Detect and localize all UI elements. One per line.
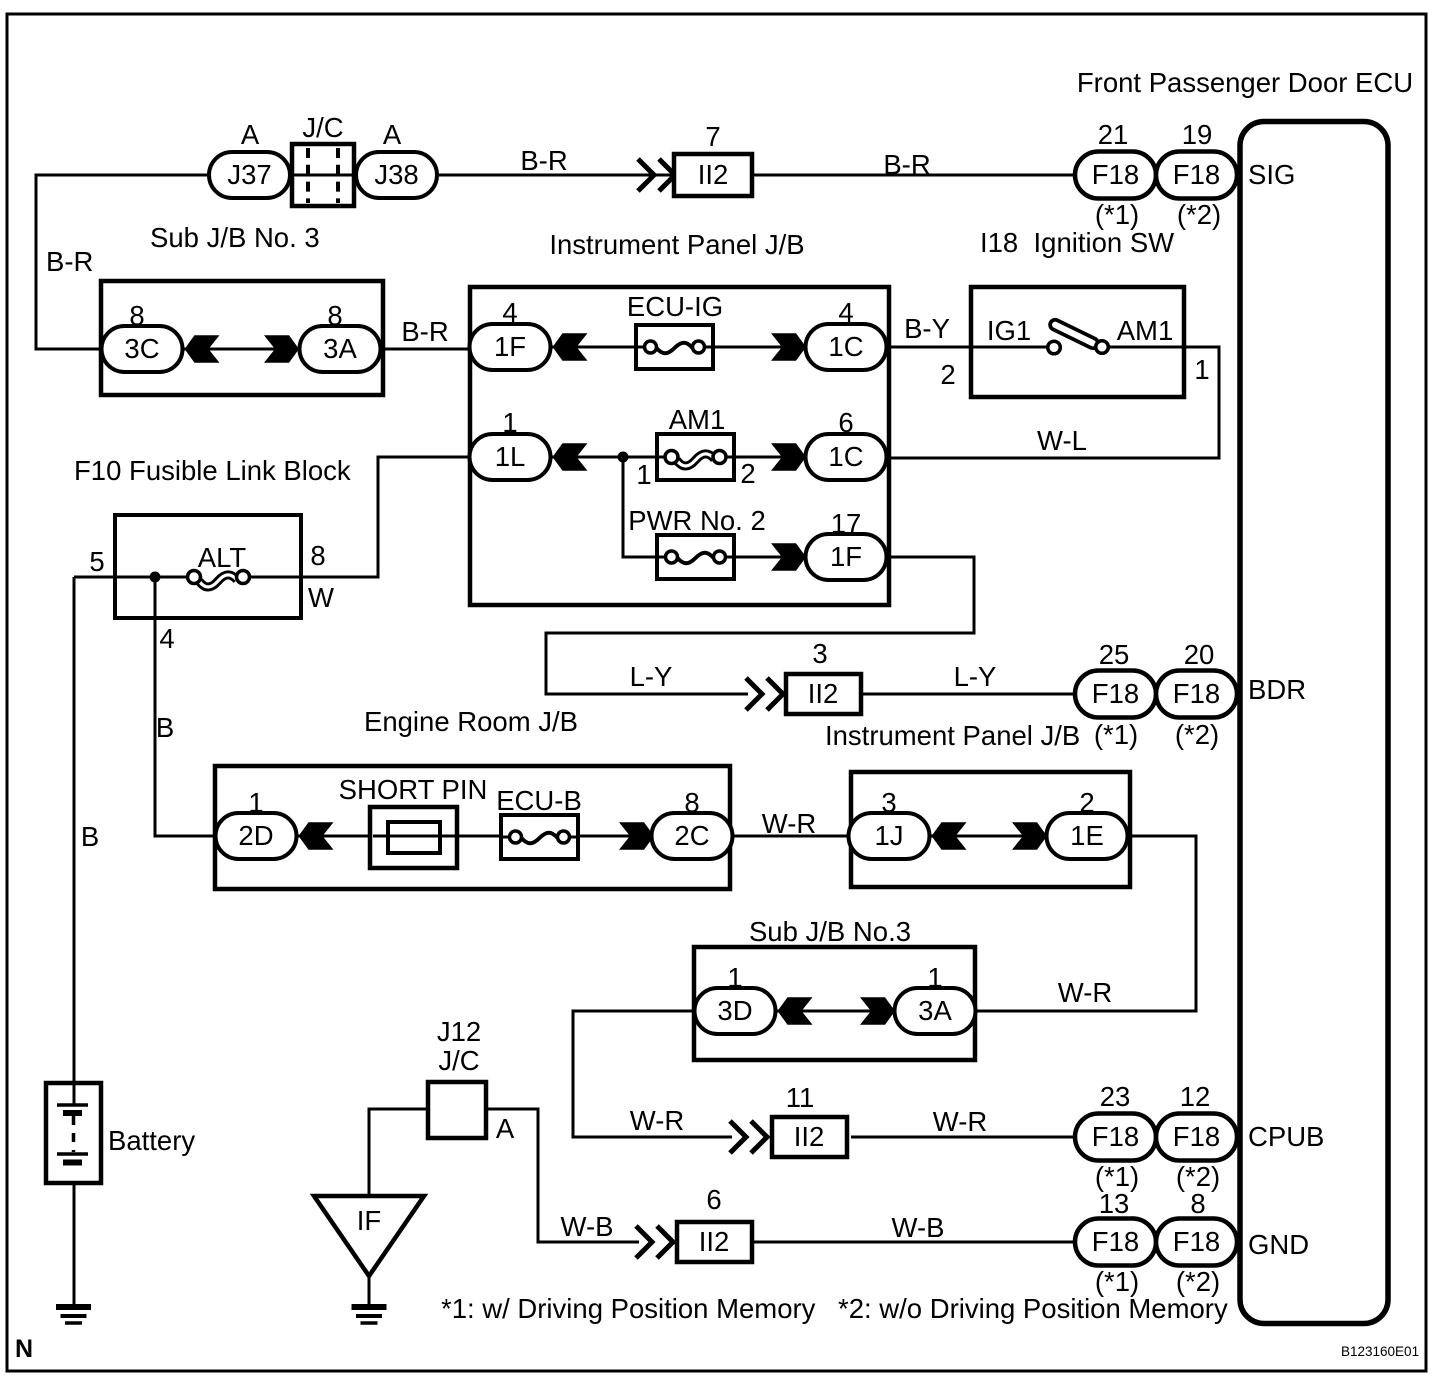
- fusible link ALT: [188, 542, 250, 587]
- svg-text:W-R: W-R: [1058, 977, 1112, 1008]
- wire 1E down to 3A (W-R): [975, 836, 1196, 1011]
- svg-text:3A: 3A: [323, 333, 357, 364]
- svg-text:A: A: [383, 119, 402, 150]
- svg-text:8: 8: [327, 300, 342, 331]
- junction node: [618, 452, 629, 463]
- svg-text:1: 1: [1194, 354, 1209, 385]
- wire 1F pin17 to II2 pin3 (L-Y): [546, 557, 974, 694]
- svg-text:A: A: [496, 1113, 515, 1144]
- svg-text:B-R: B-R: [401, 316, 448, 347]
- svg-text:J/C: J/C: [302, 112, 343, 143]
- svg-text:W-R: W-R: [630, 1105, 684, 1136]
- svg-text:ALT: ALT: [198, 542, 247, 573]
- svg-text:L-Y: L-Y: [630, 661, 673, 692]
- connector J37: [209, 119, 290, 198]
- wire J12 pin A to II2 pin6 (W-B): [487, 1109, 639, 1242]
- svg-text:J/C: J/C: [438, 1045, 479, 1076]
- ignition switch contacts IG1/AM1: [987, 315, 1173, 354]
- svg-text:1: 1: [727, 962, 742, 993]
- svg-text:5: 5: [89, 546, 104, 577]
- svg-text:3A: 3A: [918, 995, 952, 1026]
- svg-text:F18: F18: [1173, 678, 1220, 709]
- svg-text:IG1: IG1: [987, 315, 1031, 346]
- svg-text:*1: w/ Driving Position Memory: *1: w/ Driving Position Memory: [441, 1293, 816, 1324]
- svg-text:1C: 1C: [828, 441, 863, 472]
- svg-text:J38: J38: [374, 159, 418, 190]
- junction node at ALT: [150, 572, 161, 583]
- wire battery to ground: [73, 1164, 76, 1306]
- svg-text:1F: 1F: [494, 331, 526, 362]
- junction connector J/C (top): [292, 112, 354, 206]
- junction block Instrument Panel J/B: [470, 229, 889, 605]
- svg-text:1J: 1J: [874, 820, 903, 851]
- connector F18 pin 8 (*2): [1156, 1188, 1237, 1297]
- arrow into 3C: [185, 335, 220, 362]
- junction connector J12 J/C: [428, 1016, 486, 1138]
- svg-text:Engine Room J/B: Engine Room J/B: [364, 706, 578, 737]
- svg-text:F18: F18: [1173, 1226, 1220, 1257]
- wire 1L to 1C through AM1 fuse: [550, 456, 808, 459]
- connector J38: [356, 119, 437, 198]
- wire ALT row from left vertical to box: [74, 576, 190, 579]
- svg-text:F10 Fusible Link Block: F10 Fusible Link Block: [74, 455, 351, 486]
- connector 1C pin 6: [806, 407, 887, 480]
- svg-text:CPUB: CPUB: [1248, 1121, 1324, 1152]
- wire battery B vertical: [73, 577, 76, 1104]
- svg-text:1: 1: [636, 459, 651, 490]
- fuse PWR No. 2: [628, 505, 766, 579]
- svg-text:1F: 1F: [830, 541, 862, 572]
- svg-text:B: B: [81, 821, 99, 852]
- svg-text:SHORT PIN: SHORT PIN: [339, 774, 488, 805]
- battery: [46, 1083, 195, 1183]
- svg-text:B123160E01: B123160E01: [1341, 1344, 1419, 1359]
- connector F18 pin 13 (*1): [1075, 1188, 1156, 1297]
- connector II2 pin 6: [677, 1184, 752, 1262]
- svg-text:W-R: W-R: [933, 1106, 987, 1137]
- svg-text:B-Y: B-Y: [904, 313, 950, 344]
- svg-text:1C: 1C: [828, 331, 863, 362]
- double chevron into II2 pin11: [730, 1121, 767, 1153]
- svg-text:6: 6: [706, 1184, 721, 1215]
- wire 3A to 1F (B-R): [381, 348, 472, 351]
- arrow into 1L: [553, 443, 588, 470]
- svg-text:IF: IF: [357, 1205, 381, 1236]
- connector F18 pin 19 (*2): [1156, 119, 1237, 230]
- svg-text:12: 12: [1180, 1081, 1211, 1112]
- svg-text:Instrument Panel J/B: Instrument Panel J/B: [549, 229, 804, 260]
- svg-text:AM1: AM1: [1117, 315, 1174, 346]
- svg-text:B-R: B-R: [46, 246, 93, 277]
- svg-text:W-L: W-L: [1037, 425, 1087, 456]
- svg-text:Instrument Panel J/B: Instrument Panel J/B: [825, 720, 1080, 751]
- svg-text:AM1: AM1: [669, 404, 726, 435]
- wire 3D to II2 pin11 (W-R): [573, 1011, 732, 1137]
- junction block Sub J/B No.3 (bottom): [694, 916, 975, 1060]
- junction block Instrument Panel J/B (1J/1E): [851, 772, 1130, 887]
- wire II2 pin11 to F18 pin23 (W-R): [851, 1136, 1077, 1139]
- arrow into 2D: [299, 822, 334, 849]
- svg-text:*2: w/o Driving Position Memor: *2: w/o Driving Position Memory: [838, 1293, 1228, 1324]
- svg-text:23: 23: [1100, 1081, 1131, 1112]
- connector 1J pin 3: [849, 787, 930, 859]
- svg-text:1: 1: [502, 407, 517, 438]
- svg-text:1L: 1L: [495, 441, 526, 472]
- arrow into 1C pin4: [771, 333, 806, 360]
- svg-text:B-R: B-R: [883, 149, 930, 180]
- svg-text:19: 19: [1182, 119, 1213, 150]
- wire 2C to 1J (W-R): [732, 835, 851, 838]
- arrow into 3A: [264, 335, 299, 362]
- connector 1C pin 4: [806, 297, 887, 370]
- connector II2 pin 7: [674, 121, 752, 196]
- wire ignition AM1 pin1 down to 1C pin6 (W-L): [886, 347, 1219, 458]
- wire 3C to 3A: [182, 348, 301, 351]
- wire J12 to IF filter: [369, 1109, 428, 1196]
- svg-text:4: 4: [838, 297, 853, 328]
- svg-text:(*2): (*2): [1177, 199, 1221, 230]
- wire II2 pin7 to F18 pin21: [753, 174, 1077, 177]
- svg-text:BDR: BDR: [1248, 674, 1306, 705]
- arrow into 1J: [932, 822, 967, 849]
- wire 3D to 3A: [775, 1010, 895, 1013]
- connector 1F pin 4: [470, 297, 551, 370]
- svg-text:Front Passenger Door ECU: Front Passenger Door ECU: [1077, 67, 1413, 98]
- svg-text:F18: F18: [1092, 1226, 1139, 1257]
- wire 2D to 2C through SHORT PIN and ECU-B: [296, 835, 654, 838]
- svg-text:8: 8: [129, 300, 144, 331]
- block F10 Fusible Link Block: [74, 455, 351, 618]
- svg-text:7: 7: [705, 121, 720, 152]
- connector 1E pin 2: [1047, 787, 1128, 859]
- arrow into 1F: [553, 333, 588, 360]
- connector II2 pin 3: [786, 638, 861, 714]
- wire II2 pin3 to F18 pin25: [862, 693, 1077, 696]
- svg-text:1: 1: [248, 787, 263, 818]
- svg-text:21: 21: [1098, 119, 1129, 150]
- svg-text:6: 6: [838, 407, 853, 438]
- svg-text:B: B: [156, 712, 174, 743]
- svg-text:20: 20: [1184, 639, 1215, 670]
- fuse ECU-B: [496, 785, 582, 859]
- svg-text:SIG: SIG: [1248, 159, 1295, 190]
- svg-text:ECU-IG: ECU-IG: [627, 291, 723, 322]
- fuse AM1 (fusible link): [657, 404, 734, 480]
- svg-text:W: W: [308, 582, 334, 613]
- svg-text:ECU-B: ECU-B: [496, 785, 582, 816]
- connector II2 pin 11: [772, 1082, 847, 1157]
- svg-text:Sub J/B No.3: Sub J/B No.3: [749, 916, 911, 947]
- junction block Sub J/B No. 3 (top): [101, 222, 383, 395]
- connector 3A pin 8: [300, 300, 381, 372]
- svg-text:3C: 3C: [124, 333, 159, 364]
- svg-text:A: A: [241, 119, 260, 150]
- svg-text:(*1): (*1): [1095, 199, 1139, 230]
- svg-text:W-B: W-B: [892, 1212, 945, 1243]
- svg-text:PWR No. 2: PWR No. 2: [628, 505, 766, 536]
- fuse ECU-IG: [627, 291, 723, 369]
- connector 3C pin 8: [102, 300, 183, 372]
- connector 3A pin 1 (bottom): [895, 962, 976, 1034]
- svg-text:2: 2: [740, 458, 755, 489]
- wire 1J to 1E: [929, 835, 1049, 838]
- svg-text:2C: 2C: [674, 820, 709, 851]
- svg-text:4: 4: [159, 623, 174, 654]
- svg-text:(*2): (*2): [1175, 719, 1219, 750]
- svg-text:8: 8: [684, 787, 699, 818]
- svg-text:W-B: W-B: [561, 1211, 614, 1242]
- ECU block U1 Front Passenger Door ECU: [1077, 67, 1413, 1324]
- arrow into 3D: [778, 997, 813, 1024]
- connector F18 pin 25 (*1): [1075, 639, 1156, 750]
- svg-text:11: 11: [786, 1082, 815, 1113]
- arrow into 1F pin17: [771, 543, 806, 570]
- svg-text:J37: J37: [227, 159, 271, 190]
- wire 1C to ignition switch IG1 (B-Y): [886, 346, 1050, 349]
- svg-text:3: 3: [881, 787, 896, 818]
- switch I18 Ignition SW box: [971, 227, 1184, 397]
- svg-text:L-Y: L-Y: [954, 661, 997, 692]
- double chevron into II2 pin6: [636, 1226, 673, 1258]
- arrow into 1E: [1012, 822, 1047, 849]
- svg-text:25: 25: [1099, 639, 1130, 670]
- noise filter IF: [314, 1196, 424, 1276]
- svg-text:Sub J/B No. 3: Sub J/B No. 3: [150, 222, 320, 253]
- connector 1L pin 1: [470, 407, 551, 480]
- svg-text:II2: II2: [699, 1226, 730, 1257]
- wire IF to ground: [368, 1276, 371, 1306]
- svg-text:1: 1: [927, 962, 942, 993]
- svg-text:2: 2: [940, 359, 955, 390]
- svg-text:1E: 1E: [1070, 820, 1104, 851]
- svg-text:F18: F18: [1173, 1121, 1220, 1152]
- svg-text:J12: J12: [437, 1016, 481, 1047]
- arrow into 1C pin6: [771, 443, 806, 470]
- svg-text:4: 4: [502, 297, 517, 328]
- svg-text:3: 3: [812, 638, 827, 669]
- svg-text:8: 8: [1190, 1188, 1205, 1219]
- wire II2 pin6 to F18 pin13 (W-B): [754, 1241, 1077, 1244]
- arrow into 3A (bottom): [860, 997, 895, 1024]
- svg-text:N: N: [15, 1335, 33, 1363]
- svg-text:I18 Ignition SW: I18 Ignition SW: [980, 227, 1174, 258]
- junction block Engine Room J/B: [215, 706, 730, 889]
- svg-text:GND: GND: [1248, 1229, 1309, 1260]
- wire B-R from J37 left down to 3C: [36, 175, 209, 349]
- connector 2C pin 8: [652, 787, 733, 859]
- connector 1F pin 17: [806, 508, 887, 580]
- wire ALT pin8 up to 1L (W): [248, 457, 472, 577]
- connector F18 pin 23 (*1): [1075, 1081, 1156, 1192]
- svg-text:3D: 3D: [717, 995, 752, 1026]
- ground (battery): [56, 1307, 91, 1323]
- SHORT PIN component: [339, 774, 488, 868]
- double chevron into II2 pin3: [746, 678, 783, 710]
- svg-text:II2: II2: [794, 1121, 825, 1152]
- svg-text:2D: 2D: [238, 820, 273, 851]
- arrow into 2C: [619, 822, 654, 849]
- svg-text:F18: F18: [1092, 1121, 1139, 1152]
- wire ALT pin4 down to 2D (B): [155, 577, 218, 836]
- svg-text:8: 8: [310, 540, 325, 571]
- ground (IF): [352, 1307, 387, 1323]
- connector F18 pin 21 (*1): [1075, 119, 1156, 230]
- connector F18 pin 20 (*2): [1156, 639, 1237, 750]
- svg-text:II2: II2: [698, 159, 729, 190]
- svg-text:II2: II2: [808, 678, 839, 709]
- connector 3D pin 1: [695, 962, 776, 1034]
- connector 2D pin 1: [216, 787, 297, 859]
- svg-text:F18: F18: [1173, 159, 1220, 190]
- svg-text:F18: F18: [1092, 159, 1139, 190]
- wire 1F to 1C through ECU-IG: [550, 346, 808, 349]
- svg-text:W-R: W-R: [762, 808, 816, 839]
- svg-text:2: 2: [1079, 787, 1094, 818]
- svg-text:F18: F18: [1092, 678, 1139, 709]
- double chevron into II2 pin7: [638, 159, 675, 191]
- svg-text:B-R: B-R: [520, 145, 567, 176]
- svg-text:13: 13: [1099, 1188, 1130, 1219]
- wire junction to PWR No.2 to 1F pin17: [623, 457, 808, 557]
- svg-text:Battery: Battery: [108, 1125, 195, 1156]
- connector F18 pin 12 (*2): [1156, 1081, 1237, 1192]
- svg-text:17: 17: [831, 508, 862, 539]
- svg-text:(*1): (*1): [1094, 719, 1138, 750]
- wire J38 to II2 pin7: [436, 174, 674, 177]
